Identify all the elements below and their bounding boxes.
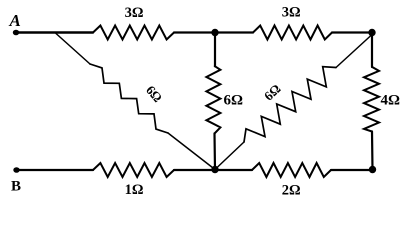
svg-text:3Ω: 3Ω (125, 5, 144, 21)
svg-text:2Ω: 2Ω (282, 183, 301, 199)
svg-text:B: B (11, 179, 21, 195)
svg-text:3Ω: 3Ω (282, 5, 301, 21)
svg-text:A: A (9, 11, 21, 30)
svg-text:1Ω: 1Ω (125, 182, 144, 198)
svg-text:4Ω: 4Ω (381, 93, 401, 109)
svg-text:6Ω: 6Ω (224, 93, 244, 109)
